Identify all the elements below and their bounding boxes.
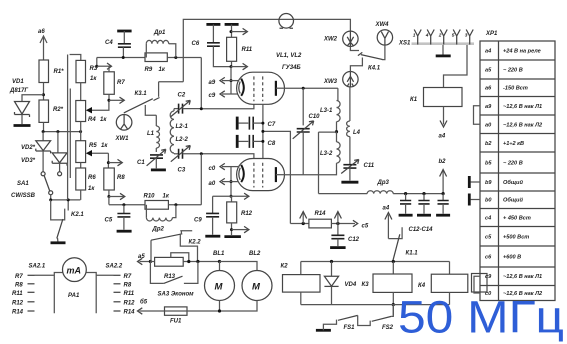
svg-text:1к: 1к <box>88 186 95 192</box>
svg-text:К3.1: К3.1 <box>135 91 148 97</box>
svg-text:R7: R7 <box>15 274 23 280</box>
ground for C11 <box>341 181 358 184</box>
svg-text:L1: L1 <box>147 131 155 137</box>
ground for C9 <box>205 235 220 238</box>
resistor R12 with tap arrows <box>227 193 253 235</box>
footswitch FS1 <box>316 315 358 331</box>
svg-text:SA2.2: SA2.2 <box>106 264 123 270</box>
svg-text:+500 Вст: +500 Вст <box>503 235 529 241</box>
choke Dr2 <box>146 205 176 233</box>
relay K1 box <box>410 88 462 107</box>
relay contact K2.2 <box>151 231 201 262</box>
svg-text:К4.1: К4.1 <box>368 66 381 72</box>
wire R3-R4 <box>80 83 82 101</box>
wire FS1 to FS2 <box>358 315 371 325</box>
svg-text:1к: 1к <box>101 143 108 149</box>
svg-text:2: 2 <box>438 33 442 39</box>
svg-text:L3-1: L3-1 <box>320 108 333 114</box>
svg-text:~ 220 В: ~ 220 В <box>503 161 523 167</box>
connector XW3 <box>323 72 358 87</box>
svg-text:ГУ34Б: ГУ34Б <box>282 65 301 71</box>
zener VD1 Д817Г <box>9 79 30 124</box>
variable capacitor C11 <box>341 160 375 181</box>
resistor R11 with chassis bar and tap arrows <box>225 24 253 69</box>
svg-text:К1.1: К1.1 <box>406 251 419 257</box>
svg-text:R12: R12 <box>241 211 253 217</box>
svg-text:VD4: VD4 <box>345 282 357 288</box>
svg-text:1к: 1к <box>100 117 107 123</box>
relay contact K2.1 <box>51 200 85 242</box>
svg-text:b9: b9 <box>485 180 492 186</box>
resistor R14 screen feed with arrows <box>290 211 368 230</box>
relay K4 coil <box>418 262 468 305</box>
svg-text:XW2: XW2 <box>323 37 338 43</box>
svg-text:b2: b2 <box>485 141 492 147</box>
ground for R12 <box>224 235 241 238</box>
svg-text:а4: а4 <box>439 134 446 140</box>
svg-text:Др1: Др1 <box>153 30 166 36</box>
svg-text:mA: mA <box>67 266 82 276</box>
svg-text:1к: 1к <box>163 194 170 200</box>
chassis tick b0 <box>469 194 480 206</box>
inductor L2-1 L2-2 <box>170 109 188 154</box>
wire bias rail y57.5 <box>97 56 145 59</box>
svg-text:BL1: BL1 <box>213 251 225 257</box>
svg-text:~12,6 В нак Л2: ~12,6 В нак Л2 <box>503 122 543 128</box>
node b2 label and up arrow <box>439 159 447 194</box>
svg-text:R6: R6 <box>88 175 96 181</box>
svg-text:R14: R14 <box>315 211 327 217</box>
svg-text:XS1: XS1 <box>398 41 411 47</box>
svg-text:R1*: R1* <box>54 69 65 75</box>
svg-text:Др2: Др2 <box>152 227 165 233</box>
svg-text:C5: C5 <box>105 218 113 224</box>
svg-text:R8: R8 <box>117 175 125 181</box>
svg-text:1: 1 <box>413 33 416 39</box>
svg-text:с9: с9 <box>485 274 492 280</box>
inductor L3-2 <box>319 132 341 175</box>
motor BL2 <box>220 251 273 311</box>
svg-text:РА1: РА1 <box>68 293 80 299</box>
svg-text:+1÷2 кВ: +1÷2 кВ <box>503 141 524 147</box>
svg-text:C3: C3 <box>178 168 186 174</box>
ground for VD1 <box>14 124 31 127</box>
relay contact K1.1 <box>388 227 418 260</box>
connector XP1 table <box>480 31 555 301</box>
resistor R5 1к with wiper arrow <box>76 141 109 163</box>
wire lever tap to L1 <box>145 105 156 115</box>
resistor R10 1к <box>144 194 202 210</box>
svg-text:Общий: Общий <box>503 197 523 204</box>
resistor R8 <box>104 168 126 190</box>
svg-text:b5: b5 <box>485 161 492 167</box>
svg-text:R11: R11 <box>124 291 135 297</box>
svg-text:а9: а9 <box>485 104 492 110</box>
svg-text:XW1: XW1 <box>115 136 130 142</box>
svg-text:Др3: Др3 <box>377 180 390 186</box>
choke Dr1 <box>146 30 176 58</box>
resistor R1* <box>39 60 64 83</box>
relay K2 coil <box>281 262 321 305</box>
connector XW4 <box>375 22 393 45</box>
svg-text:C7: C7 <box>268 122 276 128</box>
wire K1 to a4 down arrow <box>439 107 448 140</box>
tube VL1 cathode and heater <box>239 79 244 96</box>
antenna jack XS1 with antennas <box>398 30 474 47</box>
wire tank tap vertical to Dr3 rail <box>318 132 320 194</box>
wire grid rail VL2 <box>200 152 254 158</box>
wire R10 rail <box>109 203 145 206</box>
svg-text:3: 3 <box>465 33 468 39</box>
svg-text:с9: с9 <box>209 93 216 99</box>
svg-text:с0: с0 <box>209 166 216 172</box>
svg-text:4: 4 <box>425 33 429 39</box>
motor BL1 <box>205 251 235 311</box>
svg-text:L3-2: L3-2 <box>320 151 333 157</box>
svg-text:ХР1: ХР1 <box>485 31 498 37</box>
connector XW2 <box>323 31 358 46</box>
capacitor C4 with chassis bar <box>105 31 132 58</box>
svg-text:R12: R12 <box>124 300 136 306</box>
wire long vertical pair from ladder <box>68 55 71 200</box>
svg-text:с4: с4 <box>485 216 492 222</box>
svg-text:SA1: SA1 <box>17 181 29 187</box>
svg-text:К2.2: К2.2 <box>189 240 202 246</box>
tube VL2 cathode and heater <box>239 165 244 182</box>
wire/tap arrow R7 top <box>95 58 111 72</box>
svg-text:R14: R14 <box>12 310 24 316</box>
wire anode line VL1 <box>285 87 338 90</box>
wire grid vertical to R10 rail <box>200 154 202 205</box>
svg-text:C11: C11 <box>364 163 375 169</box>
wire XS1 to K1 <box>444 45 468 88</box>
svg-text:b0: b0 <box>485 198 492 204</box>
resistor R13 with wiper <box>150 253 219 280</box>
diode VD4 <box>324 262 356 305</box>
wire relay common rail <box>301 304 450 306</box>
svg-text:М: М <box>252 282 261 293</box>
svg-text:VL1, VL2: VL1, VL2 <box>276 53 302 59</box>
svg-text:CW/SSB: CW/SSB <box>11 193 36 199</box>
resistor R2* <box>39 100 64 122</box>
svg-text:50 МГц: 50 МГц <box>398 292 564 343</box>
svg-text:L2-2: L2-2 <box>176 137 189 143</box>
svg-text:C6: C6 <box>192 41 200 47</box>
svg-text:R8: R8 <box>15 282 23 288</box>
resistor R7 <box>104 72 126 95</box>
svg-text:SA3 Эконом: SA3 Эконом <box>158 292 195 298</box>
wire/tap arrow R5 wiper to R8 <box>107 153 122 168</box>
svg-text:К1: К1 <box>410 97 418 103</box>
capacitor C5 <box>105 205 131 230</box>
svg-text:а0: а0 <box>485 122 492 128</box>
relay contact K3.1 <box>124 91 160 113</box>
svg-text:R5: R5 <box>89 143 97 149</box>
svg-text:М: М <box>215 282 224 293</box>
node L3 junction with tap <box>319 130 339 133</box>
relay K3 coil <box>362 262 413 316</box>
svg-text:R14: R14 <box>124 310 136 316</box>
svg-text:K2.1: K2.1 <box>71 212 84 218</box>
svg-text:R11: R11 <box>12 291 23 297</box>
jumper bracket a9-a0 <box>474 106 481 125</box>
tube VL2 envelope <box>237 159 285 191</box>
zener VD3* <box>21 132 67 172</box>
wire grid feed vertical <box>200 58 202 109</box>
svg-text:XW4: XW4 <box>375 22 390 28</box>
variable capacitor C3 <box>171 146 202 174</box>
tube VL2 grids (dashed) <box>254 163 263 188</box>
svg-text:К2: К2 <box>281 264 289 270</box>
capacitor C8 <box>237 135 276 148</box>
wire grid rail VL1 <box>200 104 254 110</box>
svg-text:+ 450 Вст: + 450 Вст <box>503 216 531 222</box>
resistor R6 1к <box>76 168 97 200</box>
svg-text:R7: R7 <box>124 274 132 280</box>
tube VL1 grids (dashed) <box>254 76 263 101</box>
svg-text:VD1: VD1 <box>12 79 24 85</box>
svg-text:R2*: R2* <box>53 107 64 113</box>
wire SA1 common rail <box>49 198 80 210</box>
svg-text:R4: R4 <box>88 117 96 123</box>
tube VL2 anode <box>276 167 285 182</box>
svg-text:1к: 1к <box>90 76 97 82</box>
ground for K2.1 <box>51 241 66 244</box>
svg-text:б5: б5 <box>140 299 148 306</box>
wire/tap arrow R8 bottom <box>107 190 124 205</box>
svg-text:-150 Вст: -150 Вст <box>503 86 528 92</box>
wire R4-R5 <box>80 122 82 141</box>
variable capacitor C2 <box>171 93 202 117</box>
chassis tick b9 <box>469 176 480 188</box>
connector XW1 <box>115 115 132 143</box>
inductor L4 <box>347 87 361 164</box>
svg-text:FU1: FU1 <box>170 319 182 325</box>
svg-text:~12,6 В нак Л1: ~12,6 В нак Л1 <box>503 104 542 110</box>
svg-text:R10: R10 <box>144 194 156 200</box>
ground for C5 <box>117 230 132 233</box>
resistor R4 1к with wiper arrow <box>76 101 109 124</box>
variable capacitor C10 <box>293 88 320 175</box>
svg-text:SA2.1: SA2.1 <box>29 264 46 270</box>
svg-text:R7: R7 <box>117 80 125 86</box>
wire +24V relay rail <box>301 260 450 263</box>
ground for C1 <box>151 168 166 171</box>
svg-text:а4: а4 <box>383 206 390 212</box>
svg-text:5: 5 <box>452 33 455 39</box>
svg-text:Общий: Общий <box>503 179 523 186</box>
svg-text:а6: а6 <box>38 29 45 35</box>
choke Dr3 on B+ rail <box>319 180 444 194</box>
svg-text:R12: R12 <box>12 300 24 306</box>
svg-text:+600 В: +600 В <box>503 255 521 261</box>
meter selector SA2.2 <box>106 264 136 316</box>
capacitor C12 (screen bypass) <box>331 224 359 247</box>
svg-text:VD3*: VD3* <box>21 158 36 164</box>
svg-text:C2: C2 <box>178 93 186 99</box>
resistor R3 1к <box>70 55 98 83</box>
ground for XS1 <box>436 45 451 56</box>
feedthrough circle on top line <box>279 13 294 28</box>
svg-text:C8: C8 <box>268 141 276 147</box>
svg-text:L2-1: L2-1 <box>176 124 189 130</box>
resistor R9 1к <box>145 53 202 73</box>
svg-text:FS2: FS2 <box>382 325 394 331</box>
wire R5-R6 <box>80 163 82 169</box>
capacitor C7 <box>237 117 276 130</box>
svg-text:с6: с6 <box>485 255 492 261</box>
switch SA3 Econom <box>150 262 198 298</box>
switch SA1 CW/SSB <box>11 172 62 200</box>
svg-text:К3: К3 <box>362 282 370 288</box>
svg-text:C12: C12 <box>348 237 360 243</box>
svg-text:R9: R9 <box>145 67 153 73</box>
capacitor C6 with chassis bar <box>192 24 231 66</box>
svg-text:+24 В на реле: +24 В на реле <box>503 49 541 55</box>
capacitor C9 <box>194 196 231 234</box>
wire heater pins a9 c9 of VL1 <box>209 67 240 99</box>
meter PA1 mA <box>35 258 114 314</box>
svg-text:b2: b2 <box>439 159 447 165</box>
footswitch FS2 <box>372 305 394 331</box>
svg-text:а6: а6 <box>485 86 492 92</box>
svg-text:с5: с5 <box>485 235 492 241</box>
node a6 label and arrow <box>38 29 47 60</box>
wire heater pins c0 a0 of VL2 <box>209 163 240 196</box>
svg-text:~12,6 В нак Л1: ~12,6 В нак Л1 <box>503 274 542 280</box>
wire screen feed to R14 <box>263 131 291 223</box>
jumper bracket c9-c0 <box>474 276 480 293</box>
wire/tap arrow R7 bottom / R4 wiper <box>107 94 124 103</box>
wire top bypass line to XW2 <box>159 19 351 96</box>
svg-text:Д817Г: Д817Г <box>9 88 28 94</box>
svg-text:VD2*: VD2* <box>21 145 36 151</box>
tube VL1 anode <box>276 81 285 96</box>
inductor L3-1 <box>320 88 340 132</box>
svg-text:а0: а0 <box>209 181 216 187</box>
svg-text:~ 220 В: ~ 220 В <box>503 68 523 74</box>
svg-text:L4: L4 <box>353 130 361 136</box>
svg-text:C4: C4 <box>105 40 113 46</box>
wire R1 to R2 with VD1 junction <box>22 83 45 102</box>
svg-text:C1: C1 <box>137 160 145 166</box>
wire R2 bottom rail with junctions <box>42 122 83 133</box>
relay K5 coil (partial at table) <box>472 274 488 293</box>
svg-text:R11: R11 <box>242 47 253 53</box>
variable capacitor C1 <box>137 149 166 168</box>
wire anode line VL2 <box>285 174 319 176</box>
svg-text:BL2: BL2 <box>249 251 261 257</box>
svg-text:а5: а5 <box>485 68 492 74</box>
fuse FU1 <box>165 307 241 325</box>
tube VL1 GU34B envelope <box>237 53 302 104</box>
svg-text:C12-C14: C12-C14 <box>409 227 434 233</box>
svg-text:с5: с5 <box>362 224 369 230</box>
svg-text:C9: C9 <box>194 218 202 224</box>
svg-text:XW3: XW3 <box>323 79 338 85</box>
ground for C12 <box>330 246 346 249</box>
meter selector SA2.1 <box>12 264 46 316</box>
svg-text:C10: C10 <box>309 114 321 120</box>
wire b5 feed with arrow <box>138 299 165 315</box>
inductor L1 <box>147 115 160 152</box>
node a4 label and up arrow to K1.1 <box>383 206 392 239</box>
svg-text:R8: R8 <box>124 282 132 288</box>
zener VD2* <box>21 132 51 172</box>
svg-text:К4: К4 <box>418 283 426 289</box>
screen rail between tubes <box>262 104 264 158</box>
relay contact K4.1 <box>350 45 385 71</box>
svg-text:а9: а9 <box>209 80 216 86</box>
svg-text:а4: а4 <box>485 49 492 55</box>
wire a5 feed with arrow <box>138 254 152 265</box>
capacitors C12-C14 bank <box>399 192 451 233</box>
svg-text:1к: 1к <box>159 67 166 73</box>
svg-text:FS1: FS1 <box>344 325 356 331</box>
